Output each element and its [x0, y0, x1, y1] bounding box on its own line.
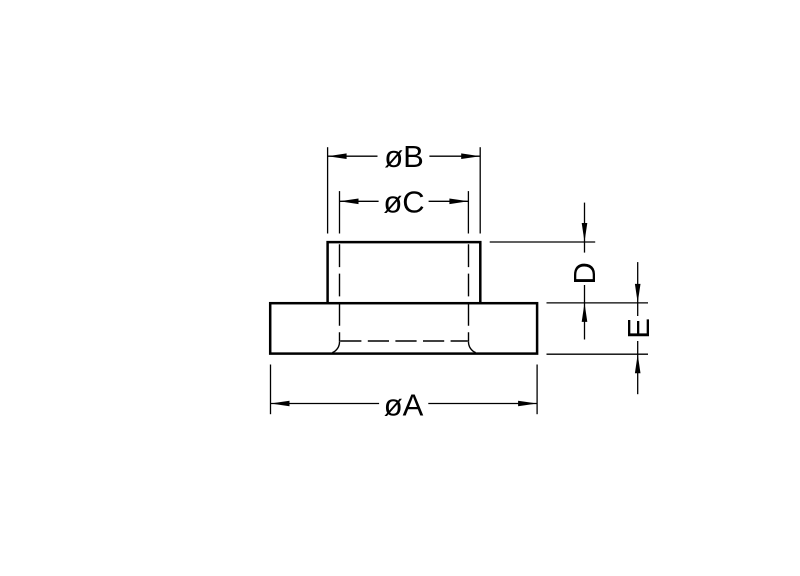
dimension D lower tail [584, 303, 586, 340]
dimension B line left segment [328, 155, 378, 157]
dimension E inner segment upper [637, 303, 639, 316]
dimension C extension line left [339, 191, 341, 233]
dimension C line right segment [429, 200, 469, 202]
dimension D inner segment lower [584, 285, 586, 303]
dimension A arrow left [271, 401, 290, 407]
dimension A arrow right [518, 401, 537, 407]
svg-text:E: E [621, 318, 656, 339]
dimension E lower tail [637, 354, 639, 394]
boss outline [328, 242, 481, 303]
hidden bore bottom line [340, 340, 468, 342]
svg-text:øB: øB [384, 139, 424, 174]
dimension C extension line right [467, 191, 469, 233]
dimension E inner segment lower [637, 341, 639, 354]
dimension B arrow left [328, 153, 347, 159]
bore flare arc right [468, 341, 475, 352]
dimension B line right segment [429, 155, 480, 157]
dimension A extension line right [536, 365, 538, 415]
dimension C arrow right [449, 199, 468, 205]
svg-text:øA: øA [384, 388, 424, 423]
bore flare arc left [332, 341, 339, 352]
dimension E lower arrow [635, 354, 641, 373]
dimension D extension line bottom (shared with E) [547, 302, 649, 304]
dimension D upper tail [584, 203, 586, 242]
dimension C arrow left [340, 199, 359, 205]
svg-text:D: D [567, 262, 602, 284]
dimension D lower arrow [582, 303, 588, 322]
dimension B arrow right [461, 153, 480, 159]
dimension E upper tail [637, 262, 639, 303]
hidden bore line right [468, 244, 470, 341]
dimension D inner segment upper [584, 242, 586, 253]
hidden bore line left [339, 244, 341, 341]
svg-text:øC: øC [383, 184, 424, 219]
dimension E extension line bottom [547, 353, 649, 355]
dimension B extension line right [479, 147, 481, 233]
dimension A line left segment [271, 403, 380, 405]
flange outline [270, 303, 537, 353]
dimension A extension line left [270, 365, 272, 415]
dimension C line left segment [340, 200, 379, 202]
dimension E upper arrow [635, 284, 641, 303]
dimension A line right segment [428, 403, 537, 405]
dimension D extension line top [490, 241, 596, 243]
dimension B extension line left [327, 147, 329, 233]
dimension D upper arrow [582, 223, 588, 242]
